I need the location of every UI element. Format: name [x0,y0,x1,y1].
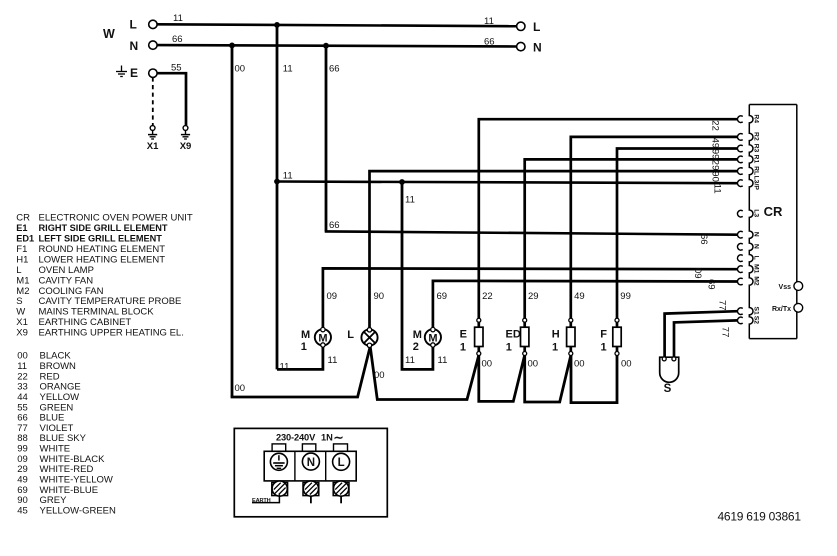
svg-text:N: N [753,244,760,249]
wire E1 to ED1 bus [479,356,525,402]
wire M1 return 11 [277,347,323,369]
mains block outer box [234,428,387,516]
L stub wire [340,496,342,504]
CR S1 wire end [738,308,743,315]
svg-text:45: 45 [17,506,28,517]
svg-text:X1: X1 [16,317,28,328]
svg-text:4619 619 03861: 4619 619 03861 [718,510,802,524]
svg-text:11: 11 [283,171,293,182]
svg-text:N: N [533,40,542,54]
element bottom terminal [569,352,573,356]
element top terminal [477,318,481,322]
wire ED1 to H1 bus [525,356,571,403]
EARTH underline wire [252,495,279,503]
svg-text:S: S [664,383,672,395]
heating element body [521,327,529,346]
wire 90 lamp to CR RL [370,171,738,329]
mains block tab earth [272,444,286,451]
svg-text:R4: R4 [753,114,760,123]
wire 77 S2 [674,320,738,357]
wire 66 to CR N [326,230,738,235]
CR Rx/Tx pin circle [794,303,803,312]
element top terminal [615,318,619,322]
svg-text:EARTHING CABINET: EARTHING CABINET [39,317,132,328]
svg-text:11: 11 [438,355,448,366]
svg-text:W: W [16,307,25,318]
motor M1 [315,329,331,345]
CR M1 wire end [738,266,743,273]
svg-text:∼: ∼ [334,431,344,445]
svg-text:66: 66 [329,220,340,231]
element bottom stub wire [477,346,480,356]
L terminal circle [333,453,350,470]
svg-text:Rx/Tx: Rx/Tx [772,306,791,313]
earthing X1 symbol [148,126,157,139]
svg-text:ED1: ED1 [16,234,34,244]
element top terminal [523,318,527,322]
svg-text:11: 11 [280,362,290,373]
wire 99 to CR [617,149,738,328]
wire 66 vertical [325,45,328,231]
wire 29 to CR [525,159,738,327]
earth terminal circle [270,453,287,470]
svg-text:R3: R3 [753,144,760,153]
CR unconnected pin arc [738,210,743,217]
svg-text:E: E [460,329,467,341]
CR Vss pin circle [794,282,803,291]
svg-text:COOLING FAN: COOLING FAN [39,286,104,297]
svg-text:69: 69 [706,279,717,290]
svg-text:11: 11 [405,355,415,366]
svg-text:N: N [753,232,760,237]
svg-text:00: 00 [235,383,246,394]
svg-text:66: 66 [698,234,709,245]
wire 69 M2 to CR M2 [433,281,738,329]
svg-text:2: 2 [413,341,419,353]
svg-text:00: 00 [482,359,493,370]
svg-text:EARTHING UPPER HEATING EL.: EARTHING UPPER HEATING EL. [39,328,184,339]
earth screw terminal [272,483,288,496]
svg-text:X9: X9 [180,141,192,152]
svg-text:1: 1 [552,342,558,354]
svg-text:99: 99 [710,149,721,160]
svg-text:00: 00 [235,64,246,75]
svg-text:09: 09 [327,291,338,302]
node junction 11 bus [274,179,280,185]
dashed earth wire to X1 [152,77,154,125]
svg-text:00: 00 [574,359,585,370]
earth symbol at E terminal [116,66,127,77]
svg-text:YELLOW-GREEN: YELLOW-GREEN [40,506,117,517]
svg-text:1: 1 [601,342,607,354]
wire L (11) to oven [157,24,516,26]
svg-text:L: L [533,20,540,34]
CR wire end for ED [738,156,743,163]
terminal circle N right [517,42,525,50]
probe S terminal 1 [662,357,666,361]
wire 11 to CR L3/P [277,182,738,184]
svg-text:00: 00 [528,359,539,370]
CR wire end for F [738,145,743,152]
svg-text:11: 11 [712,184,723,194]
CR RL wire end [738,168,743,175]
svg-text:E: E [130,66,138,80]
element bottom terminal [615,352,619,356]
legend wire colour list [17,351,116,517]
svg-text:S1: S1 [753,307,760,316]
CR unconnected pin arc [738,255,743,262]
wire 00 bottom bus to lamp [232,347,370,397]
svg-text:66: 66 [329,64,340,75]
svg-text:99: 99 [620,291,631,302]
node junction N-00 [229,43,235,49]
motor M2 top terminal [431,327,435,331]
CR wire end for E [738,116,743,123]
svg-text:M2: M2 [753,276,760,286]
lamp top terminal [367,328,371,332]
CR power unit box [749,105,797,339]
CR N wire end [738,231,743,238]
svg-text:L: L [130,17,137,31]
svg-text:M1: M1 [16,275,29,286]
svg-text:ED: ED [506,329,521,341]
svg-text:L: L [338,457,345,469]
element bottom terminal [523,352,527,356]
wire E 55 to X9 [157,73,186,125]
svg-text:230-240V: 230-240V [276,432,316,442]
svg-text:E1: E1 [16,223,27,233]
svg-text:ELECTRONIC OVEN POWER UNIT: ELECTRONIC OVEN POWER UNIT [39,213,193,224]
CR S2 wire end [738,317,743,324]
svg-text:H: H [552,329,560,341]
svg-text:55: 55 [171,63,182,74]
strip divider 1 [294,451,296,481]
svg-text:CR: CR [764,204,783,219]
CR M2 wire end [738,278,743,285]
svg-text:69: 69 [437,291,448,302]
probe S terminal 2 [672,357,676,361]
svg-text:11: 11 [283,64,293,75]
svg-text:1: 1 [460,342,466,354]
svg-text:29: 29 [528,291,539,302]
svg-text:S: S [16,296,22,307]
svg-text:00: 00 [621,359,632,370]
svg-text:22: 22 [710,120,721,131]
element top terminal [569,318,573,322]
svg-text:M2: M2 [16,286,29,297]
CR L3/P wire end [738,180,743,187]
svg-text:00: 00 [374,370,385,381]
svg-text:L: L [347,329,354,341]
legend component list [16,213,193,339]
svg-text:CAVITY FAN: CAVITY FAN [39,275,94,286]
svg-text:1: 1 [506,342,512,354]
svg-text:77: 77 [720,327,731,338]
svg-text:X1: X1 [147,141,159,152]
svg-text:90: 90 [710,171,721,182]
svg-text:RIGHT SIDE GRILL ELEMENT: RIGHT SIDE GRILL ELEMENT [39,223,168,233]
mains block tab L [334,444,348,451]
svg-text:49: 49 [574,291,585,302]
svg-text:OVEN LAMP: OVEN LAMP [39,265,94,276]
wire H1 to F1 bus [571,356,617,403]
svg-text:W: W [103,27,115,41]
svg-text:M1: M1 [753,264,760,274]
wire M2 return 11 [402,182,433,369]
motor M2 bottom terminal [431,343,435,347]
svg-text:09: 09 [692,268,703,279]
terminal L circle [149,20,157,28]
wire 22 to CR [479,119,738,327]
element bottom stub wire [569,346,572,356]
heating element body [567,327,575,346]
svg-text:M: M [301,329,310,341]
node junction on L wire [274,22,280,28]
svg-text:F1: F1 [16,244,27,255]
svg-text:S2: S2 [753,316,760,325]
node junction N-66 [323,43,329,49]
wire 00 vertical [231,45,234,397]
terminal circle L right [517,22,525,30]
oven lamp L [361,329,377,345]
terminal N circle [149,41,157,49]
strip divider 2 [325,451,327,481]
svg-text:N: N [130,39,139,53]
earthing X9 symbol [181,126,190,139]
svg-text:1N: 1N [321,432,333,442]
L screw terminal [333,483,349,496]
motor M1 bottom terminal [321,343,325,347]
svg-text:LOWER HEATING ELEMENT: LOWER HEATING ELEMENT [39,254,166,265]
wire N (66) to oven [157,45,516,46]
element bottom stub wire [616,346,619,356]
svg-text:22: 22 [482,291,493,302]
motor M1 top terminal [321,327,325,331]
svg-text:49: 49 [710,138,721,149]
svg-text:CAVITY TEMPERATURE PROBE: CAVITY TEMPERATURE PROBE [39,296,182,307]
svg-text:66: 66 [484,37,495,48]
N terminal circle [302,453,319,470]
heating element body [475,327,483,346]
svg-text:90: 90 [374,291,385,302]
svg-text:CR: CR [16,213,30,224]
svg-text:R2: R2 [753,132,760,141]
wire 09 M1 to CR M1 [323,268,738,329]
wire 11 vertical [276,25,279,370]
svg-text:11: 11 [328,355,338,366]
svg-text:RL: RL [753,166,760,175]
svg-text:M: M [413,329,422,341]
svg-text:X9: X9 [16,328,28,339]
lamp bottom terminal [367,343,371,347]
element bottom stub wire [523,346,526,356]
svg-text:29: 29 [710,160,721,171]
heating element body [613,327,621,346]
svg-text:H1: H1 [16,254,28,265]
svg-text:MAINS TERMINAL BLOCK: MAINS TERMINAL BLOCK [39,307,155,318]
probe S body [660,357,679,382]
CR unconnected pin arc [738,244,743,251]
svg-text:L3: L3 [753,209,760,217]
svg-text:Vss: Vss [779,284,792,291]
svg-text:ROUND HEATING ELEMENT: ROUND HEATING ELEMENT [39,244,166,255]
N stub wire [310,496,312,504]
mains block tab N [302,444,315,451]
svg-text:1: 1 [301,341,307,353]
wire 77 S1 [665,311,738,357]
svg-text:11: 11 [484,16,494,27]
svg-text:L3/P: L3/P [753,176,760,191]
svg-text:R1: R1 [753,155,760,164]
svg-text:LEFT SIDE GRILL ELEMENT: LEFT SIDE GRILL ELEMENT [39,234,163,244]
terminal E circle [149,69,157,77]
mains terminal strip [264,451,356,481]
svg-text:77: 77 [717,300,728,311]
svg-text:F: F [600,329,607,341]
node junction M2 leg [399,179,405,185]
svg-text:66: 66 [172,34,183,45]
element bottom terminal [477,352,481,356]
wire 49 to CR [571,137,738,328]
CR wire end for H [738,134,743,141]
N screw terminal [303,483,319,496]
wire lamp to E1 bus [370,347,478,399]
svg-text:11: 11 [405,195,415,206]
motor M2 [425,329,441,345]
svg-text:L: L [16,265,21,276]
svg-text:N: N [307,457,315,469]
svg-text:L: L [753,256,760,260]
svg-text:11: 11 [173,13,183,24]
